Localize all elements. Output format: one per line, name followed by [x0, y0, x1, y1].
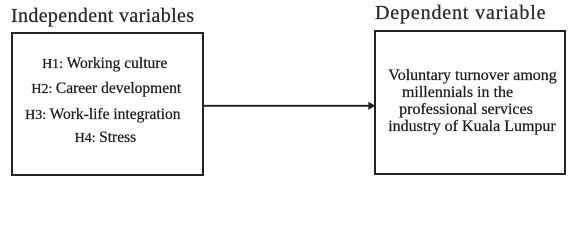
title: Independent variables [11, 6, 194, 26]
title: Dependent variable [375, 3, 546, 23]
box: independent variables [11, 32, 204, 177]
text: hypotheses list [11, 52, 199, 151]
box: dependent variable [374, 30, 566, 175]
arrow: independent to dependent [203, 97, 377, 115]
text: voluntary turnover statement [376, 67, 563, 136]
